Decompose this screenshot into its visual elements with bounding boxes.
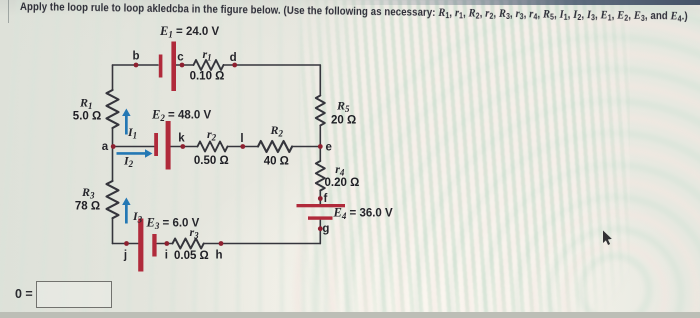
resistor r2 <box>198 142 228 152</box>
resistor r1 <box>194 60 224 70</box>
svg-text:r1: r1 <box>203 47 212 63</box>
resistor R2 <box>258 141 292 152</box>
current arrow I2 <box>117 149 153 158</box>
resistor r4 <box>316 161 325 190</box>
left screen edge artifact line <box>8 0 9 23</box>
wire middle branch r2 to R2 <box>228 146 259 148</box>
node c <box>180 63 185 68</box>
node i <box>164 241 169 246</box>
moire stripe overlay <box>300 0 630 318</box>
svg-text:R2: R2 <box>270 123 284 139</box>
svg-text:i: i <box>165 250 168 262</box>
svg-text:E4 = 36.0 V: E4 = 36.0 V <box>333 206 394 222</box>
node e <box>318 144 323 149</box>
svg-text:0.50 Ω: 0.50 Ω <box>194 155 229 167</box>
node l <box>240 144 245 149</box>
svg-text:I3: I3 <box>132 209 143 225</box>
svg-text:f: f <box>324 193 328 205</box>
svg-text:b: b <box>132 51 139 63</box>
battery E4 short plate <box>308 216 333 219</box>
svg-text:h: h <box>215 250 222 262</box>
battery E2 long plate <box>166 121 171 170</box>
svg-text:E3 = 6.0 V: E3 = 6.0 V <box>146 216 200 232</box>
svg-text:20 Ω: 20 Ω <box>331 115 356 127</box>
wire right rail battery E4 to bottom-right corner <box>319 220 321 244</box>
svg-text:R1: R1 <box>79 96 93 112</box>
wire right rail between R5 and r4 <box>319 126 321 162</box>
node b <box>134 63 139 68</box>
svg-text:l: l <box>240 133 243 145</box>
svg-text:78 Ω: 78 Ω <box>75 201 100 213</box>
battery E2 short plate <box>154 133 158 156</box>
svg-text:0.20 Ω: 0.20 Ω <box>325 177 360 189</box>
node k <box>180 144 185 149</box>
svg-text:g: g <box>322 223 329 235</box>
wire left rail bottom segment <box>112 218 114 244</box>
mouse cursor <box>603 231 612 246</box>
answer input box <box>36 281 112 308</box>
top screen edge band <box>0 0 700 5</box>
node f <box>318 196 323 201</box>
node h <box>219 241 224 246</box>
svg-text:e: e <box>326 142 332 154</box>
resistor R5 <box>316 96 325 126</box>
battery E3 short plate <box>152 234 156 257</box>
svg-text:5.0 Ω: 5.0 Ω <box>73 111 101 123</box>
wire right rail r4 to battery E4 <box>319 191 321 205</box>
resistor r3 <box>173 239 204 249</box>
battery E3 long plate <box>138 219 143 272</box>
bottom screen edge strip <box>0 312 700 318</box>
svg-text:I1: I1 <box>127 125 137 141</box>
svg-text:E1 = 24.0 V: E1 = 24.0 V <box>159 24 220 40</box>
node g <box>318 226 323 231</box>
battery E1 long plate <box>171 42 176 92</box>
wire middle branch battery E2 to resistor r2 <box>171 146 198 148</box>
svg-text:k: k <box>178 133 185 145</box>
svg-text:r2: r2 <box>207 127 217 143</box>
wire top rail resistor r1 to top-right corner <box>224 64 321 66</box>
svg-text:R3: R3 <box>81 185 95 201</box>
wire bottom rail left corner to battery E3 <box>113 243 139 245</box>
resistor R3 <box>107 181 119 218</box>
current arrow I1 <box>122 109 131 135</box>
svg-text:d: d <box>230 52 237 64</box>
svg-text:a: a <box>102 141 109 153</box>
wire middle branch R2 to node e <box>292 146 320 148</box>
wire middle branch node a to battery E2 <box>113 146 155 148</box>
wire top rail battery E1 to resistor r1 <box>176 64 194 66</box>
wire left rail middle segment <box>112 128 114 181</box>
battery E1 short plate <box>159 55 163 78</box>
node a <box>111 144 116 149</box>
equation row <box>15 287 33 301</box>
title text <box>20 0 688 24</box>
svg-text:0.10 Ω: 0.10 Ω <box>190 71 225 83</box>
svg-text:j: j <box>123 250 127 262</box>
svg-text:R5: R5 <box>336 99 350 115</box>
svg-text:40 Ω: 40 Ω <box>264 156 289 168</box>
svg-text:c: c <box>177 52 184 64</box>
node d <box>232 63 237 68</box>
wire bottom rail r3 to bottom-right corner <box>204 243 321 245</box>
wire bottom rail battery E3 to resistor r3 <box>157 243 173 245</box>
wire right rail top segment <box>319 65 321 96</box>
svg-text:r4: r4 <box>335 162 345 178</box>
current arrow I3 <box>122 198 131 224</box>
resistor R1 <box>107 90 119 128</box>
node j <box>124 241 129 246</box>
svg-text:0.05 Ω: 0.05 Ω <box>174 250 209 262</box>
svg-text:I2: I2 <box>123 154 134 170</box>
wire left rail top segment <box>112 65 114 90</box>
battery E4 long plate <box>297 204 346 207</box>
svg-text:E2 = 48.0 V: E2 = 48.0 V <box>151 108 212 124</box>
wire top rail left of battery E1 <box>113 64 159 66</box>
